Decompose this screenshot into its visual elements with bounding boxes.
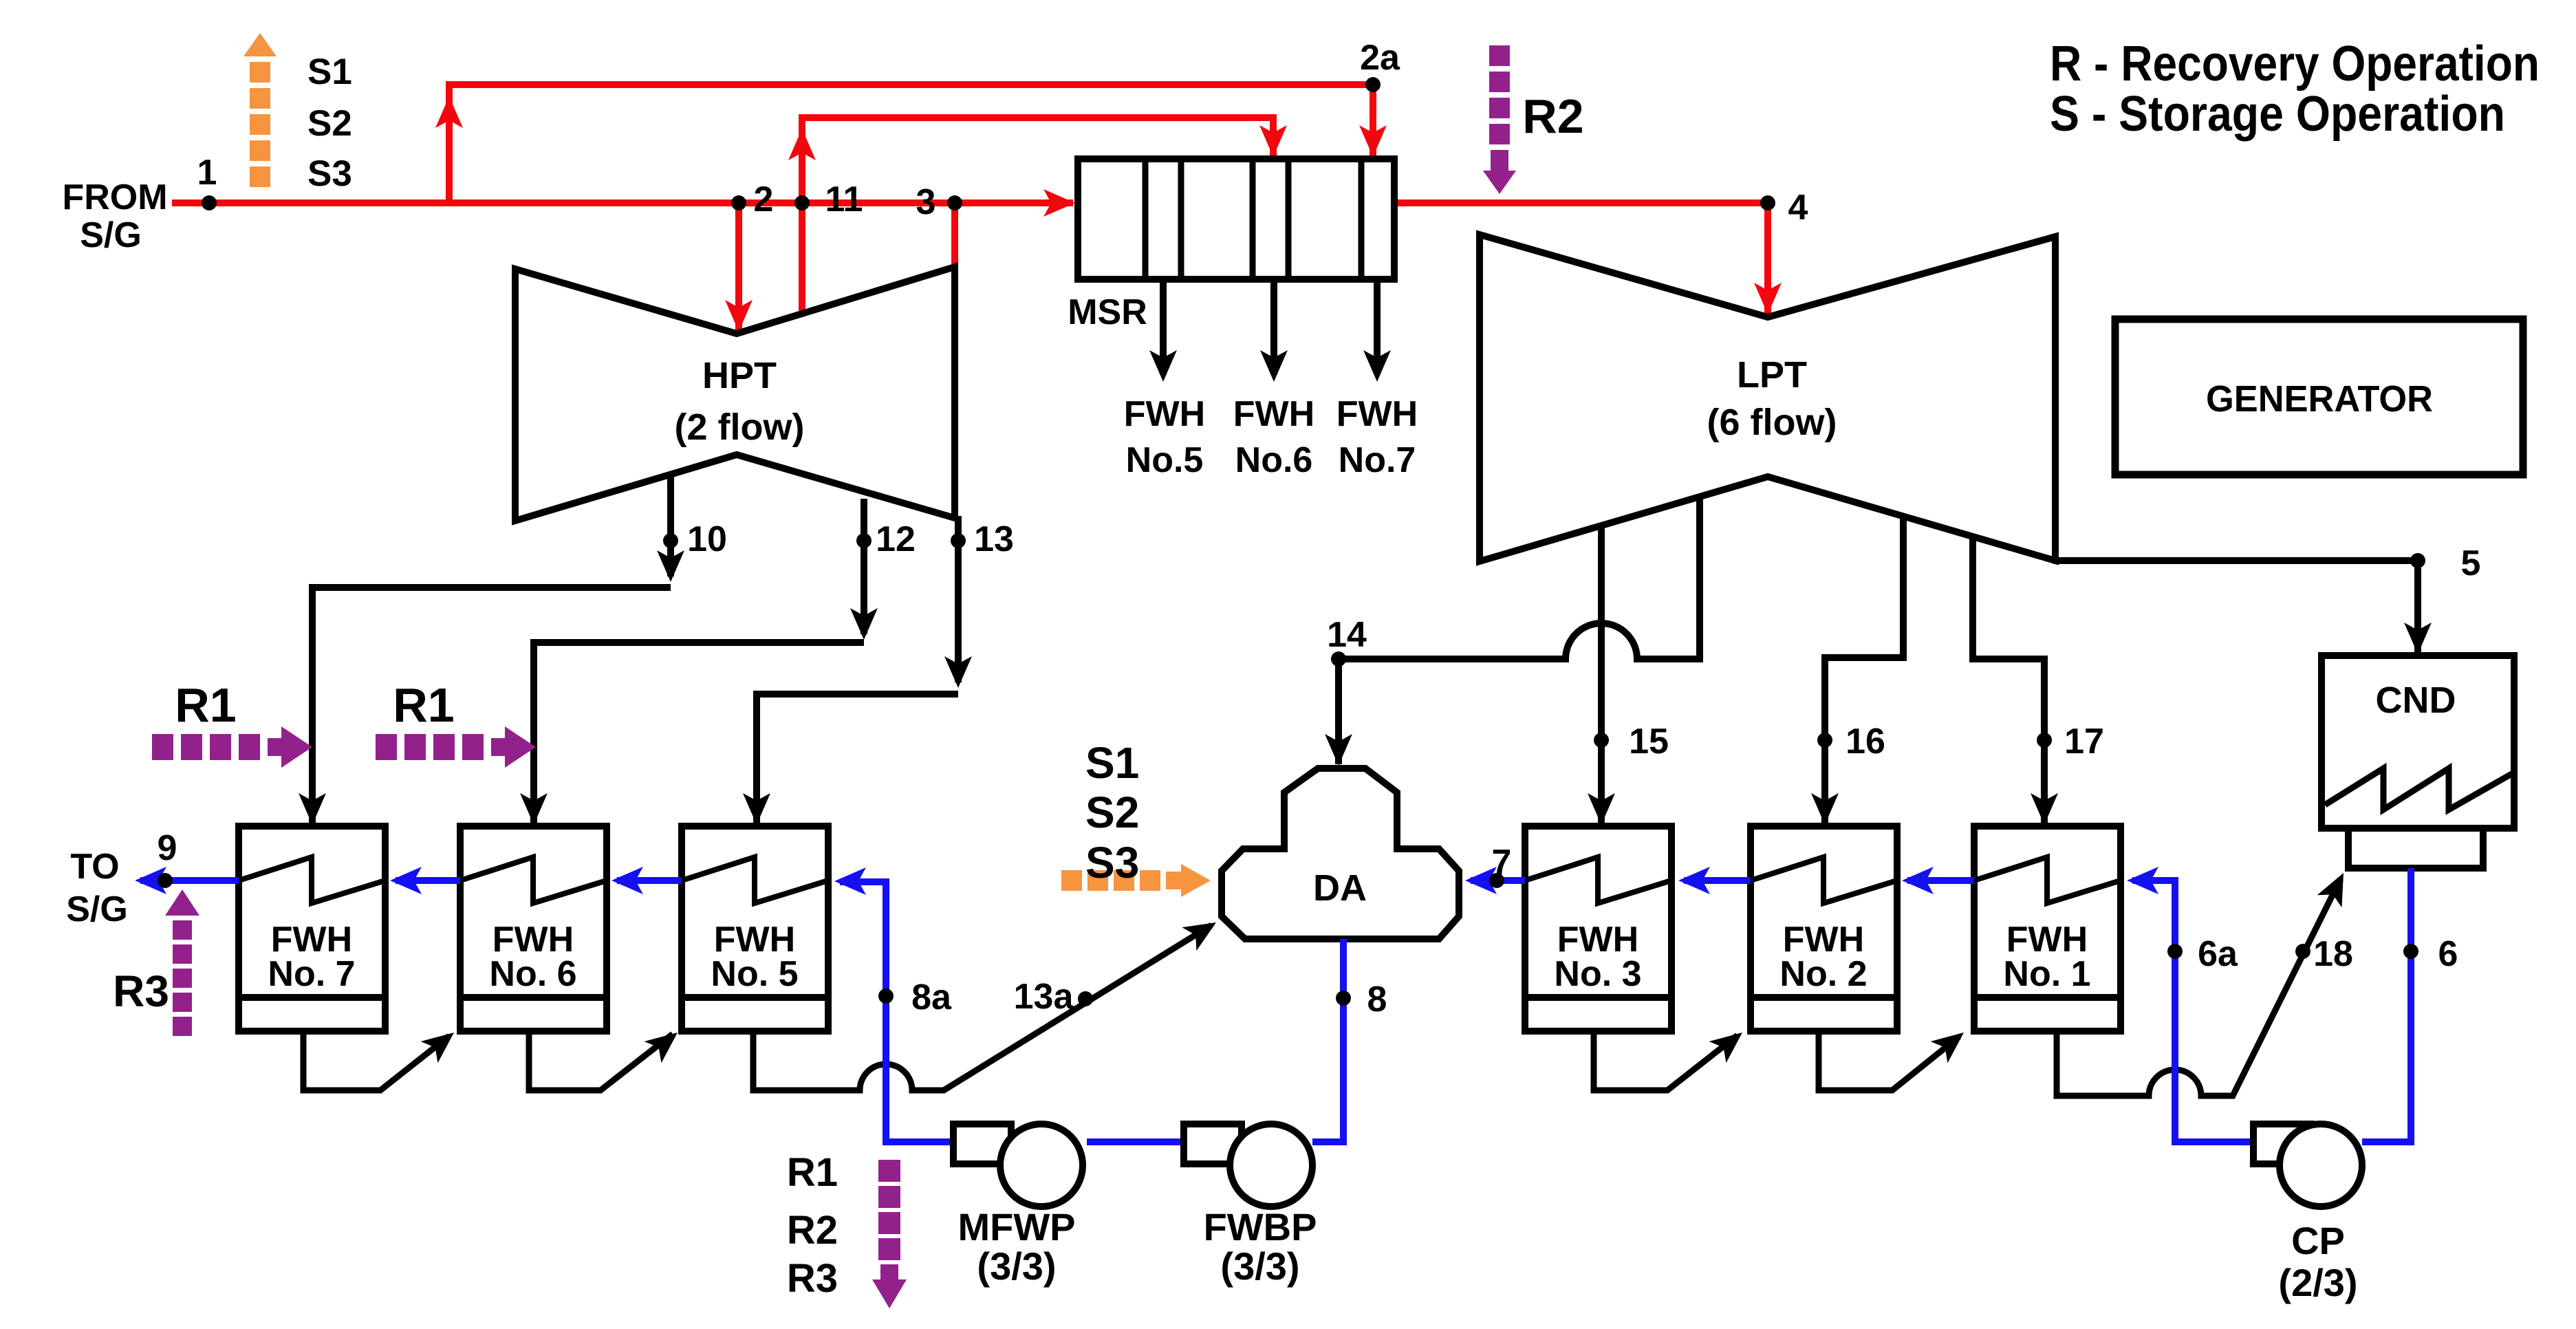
- svg-text:S3: S3: [307, 153, 352, 194]
- svg-text:15: 15: [1629, 722, 1669, 761]
- svg-text:17: 17: [2064, 722, 2104, 761]
- svg-text:12: 12: [876, 519, 916, 559]
- svg-text:R3: R3: [787, 1256, 838, 1301]
- svg-text:R - Recovery Operation: R - Recovery Operation: [2050, 36, 2540, 91]
- svg-text:R2: R2: [787, 1208, 838, 1253]
- svg-text:No.5: No.5: [1126, 440, 1204, 480]
- svg-text:S - Storage Operation: S - Storage Operation: [2050, 87, 2505, 142]
- svg-text:No. 1: No. 1: [2003, 954, 2090, 994]
- svg-text:18: 18: [2313, 934, 2353, 974]
- svg-text:10: 10: [687, 519, 727, 559]
- svg-text:S1: S1: [307, 52, 352, 92]
- svg-text:CP: CP: [2291, 1219, 2345, 1262]
- svg-text:S3: S3: [1085, 838, 1139, 887]
- svg-text:S/G: S/G: [66, 889, 128, 929]
- svg-text:R3: R3: [113, 966, 169, 1016]
- svg-text:6a: 6a: [2198, 934, 2238, 974]
- svg-text:(3/3): (3/3): [977, 1244, 1056, 1288]
- svg-text:S/G: S/G: [80, 215, 142, 255]
- svg-text:6: 6: [2438, 934, 2458, 974]
- svg-text:No. 7: No. 7: [268, 954, 355, 994]
- svg-text:FWBP: FWBP: [1204, 1205, 1317, 1249]
- svg-text:S2: S2: [1085, 788, 1139, 837]
- svg-text:CND: CND: [2376, 680, 2456, 721]
- svg-text:11: 11: [825, 180, 863, 219]
- svg-text:13: 13: [974, 519, 1014, 559]
- svg-text:FWH: FWH: [1124, 394, 1205, 434]
- svg-text:GENERATOR: GENERATOR: [2206, 378, 2433, 420]
- svg-text:FROM: FROM: [62, 177, 167, 217]
- svg-text:FWH: FWH: [1233, 394, 1314, 434]
- svg-text:R1: R1: [175, 678, 236, 732]
- svg-text:MSR: MSR: [1068, 292, 1147, 332]
- svg-text:No. 6: No. 6: [489, 954, 576, 994]
- svg-text:No. 3: No. 3: [1554, 954, 1641, 994]
- svg-text:16: 16: [1846, 722, 1885, 761]
- svg-text:LPT: LPT: [1737, 354, 1807, 396]
- svg-text:5: 5: [2461, 543, 2481, 583]
- svg-text:2: 2: [754, 180, 774, 219]
- svg-text:(3/3): (3/3): [1220, 1244, 1299, 1288]
- svg-text:MFWP: MFWP: [957, 1205, 1075, 1249]
- svg-text:No. 5: No. 5: [711, 954, 798, 994]
- svg-text:(2 flow): (2 flow): [675, 407, 805, 448]
- svg-text:(2/3): (2/3): [2278, 1261, 2357, 1304]
- svg-text:9: 9: [158, 828, 177, 868]
- svg-text:S1: S1: [1085, 738, 1139, 788]
- svg-text:13a: 13a: [1014, 977, 1074, 1017]
- svg-text:7: 7: [1492, 843, 1512, 883]
- svg-text:3: 3: [916, 182, 936, 222]
- svg-text:8: 8: [1367, 980, 1387, 1019]
- svg-text:2a: 2a: [1360, 38, 1400, 78]
- svg-text:No.6: No.6: [1235, 440, 1313, 480]
- svg-text:(6 flow): (6 flow): [1707, 402, 1837, 443]
- svg-text:TO: TO: [70, 847, 119, 887]
- svg-text:DA: DA: [1313, 867, 1367, 909]
- svg-text:4: 4: [1788, 188, 1808, 228]
- svg-text:HPT: HPT: [702, 355, 777, 396]
- svg-text:R2: R2: [1522, 89, 1583, 143]
- svg-text:R1: R1: [787, 1150, 838, 1195]
- svg-text:R1: R1: [393, 678, 454, 732]
- svg-text:S2: S2: [307, 103, 352, 144]
- svg-text:8a: 8a: [911, 977, 952, 1017]
- svg-text:No.7: No.7: [1339, 440, 1416, 480]
- svg-text:FWH: FWH: [1336, 394, 1418, 434]
- svg-text:No. 2: No. 2: [1779, 954, 1867, 994]
- svg-text:1: 1: [197, 153, 217, 193]
- svg-text:14: 14: [1327, 615, 1367, 655]
